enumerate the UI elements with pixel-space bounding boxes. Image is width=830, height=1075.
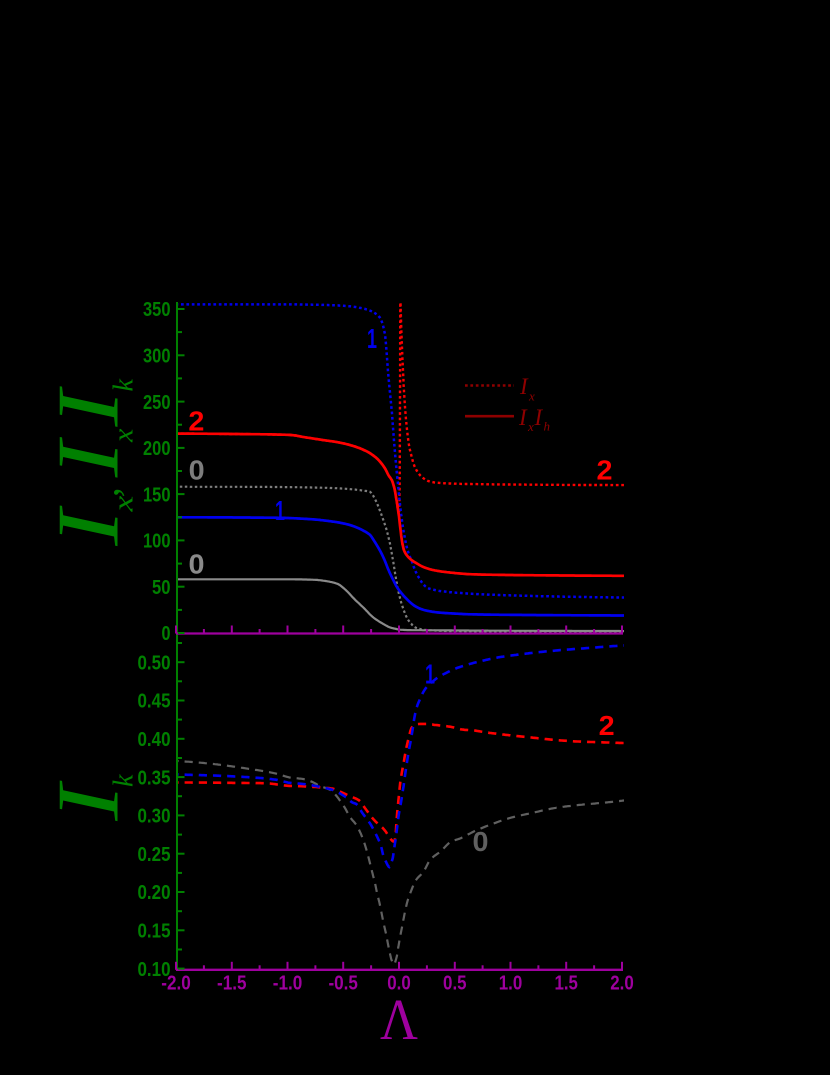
svg-text:-2.0: -2.0 [161, 973, 191, 995]
svg-text:150: 150 [143, 484, 171, 506]
svg-text:-1.5: -1.5 [217, 973, 247, 995]
svg-text:0.25: 0.25 [138, 844, 171, 866]
svg-text:0.45: 0.45 [138, 691, 171, 713]
svg-text:I: I [519, 374, 529, 399]
svg-text:50: 50 [152, 577, 171, 599]
svg-text:k: k [109, 379, 140, 392]
svg-text:x: x [108, 429, 139, 443]
svg-text:250: 250 [143, 392, 171, 414]
svg-text:,: , [82, 487, 127, 497]
svg-text:0.20: 0.20 [138, 882, 171, 904]
svg-text:0: 0 [162, 623, 171, 645]
svg-text:1: 1 [367, 323, 377, 354]
svg-text:-0.5: -0.5 [328, 973, 358, 995]
svg-text:x: x [527, 419, 534, 434]
svg-text:I: I [518, 405, 528, 430]
svg-text:2: 2 [597, 455, 613, 486]
svg-text:0.50: 0.50 [138, 652, 171, 674]
svg-text:1: 1 [275, 495, 285, 526]
svg-text:200: 200 [143, 438, 171, 460]
svg-text:0.5: 0.5 [443, 973, 467, 995]
svg-text:h: h [544, 419, 551, 434]
svg-text:2: 2 [599, 710, 615, 741]
svg-text:0: 0 [189, 455, 205, 486]
svg-text:Λ: Λ [380, 987, 418, 1052]
svg-text:300: 300 [143, 346, 171, 368]
svg-text:2: 2 [188, 406, 204, 437]
svg-text:I: I [40, 437, 137, 479]
svg-text:1: 1 [425, 659, 435, 690]
svg-text:2.0: 2.0 [610, 973, 634, 995]
svg-text:0.35: 0.35 [138, 767, 171, 789]
svg-text:100: 100 [143, 531, 171, 553]
svg-text:k: k [109, 774, 140, 787]
svg-text:0: 0 [473, 826, 489, 857]
svg-text:I: I [534, 405, 544, 430]
svg-text:0.30: 0.30 [138, 806, 171, 828]
svg-text:1.5: 1.5 [554, 973, 578, 995]
svg-text:350: 350 [143, 299, 171, 321]
svg-text:0.40: 0.40 [138, 729, 171, 751]
svg-text:x: x [528, 389, 535, 404]
svg-text:1.0: 1.0 [499, 973, 523, 995]
svg-text:0: 0 [189, 549, 205, 580]
svg-text:0.15: 0.15 [138, 921, 171, 943]
svg-text:-1.0: -1.0 [273, 973, 303, 995]
